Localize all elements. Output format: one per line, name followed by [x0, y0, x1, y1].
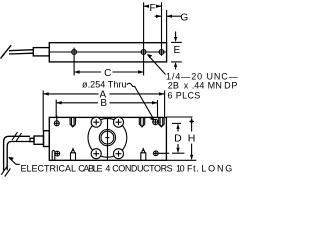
svg-text:G: G: [180, 13, 188, 24]
svg-text:Ft.: Ft.: [187, 163, 199, 173]
svg-text:x: x: [184, 80, 189, 90]
svg-text:H: H: [188, 133, 196, 145]
svg-text:ø.254 Thru: ø.254 Thru: [82, 79, 127, 89]
svg-text:10: 10: [176, 163, 185, 173]
svg-text:C: C: [104, 68, 111, 79]
svg-text:PLCS: PLCS: [176, 90, 201, 100]
svg-text:E: E: [173, 45, 180, 56]
svg-text:P: P: [231, 80, 237, 90]
svg-text:D: D: [224, 80, 231, 90]
svg-text:ELECTRICAL: ELECTRICAL: [21, 163, 77, 173]
svg-text:B: B: [100, 98, 107, 109]
svg-text:6: 6: [168, 90, 173, 100]
svg-text:CONDUCTORS: CONDUCTORS: [112, 163, 173, 173]
svg-text:LONG: LONG: [201, 163, 232, 173]
svg-text:4: 4: [105, 163, 110, 173]
svg-text:2B: 2B: [168, 80, 179, 90]
svg-text:.44: .44: [192, 80, 205, 90]
svg-text:F: F: [150, 3, 156, 14]
svg-text:D: D: [174, 133, 182, 145]
svg-text:CABLE: CABLE: [78, 163, 102, 173]
svg-text:MN: MN: [208, 80, 222, 90]
